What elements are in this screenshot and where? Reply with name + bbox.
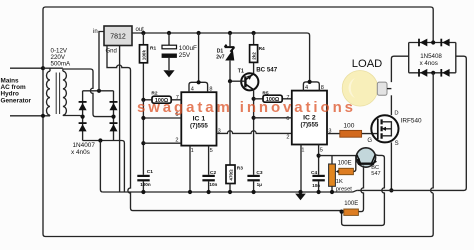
transformer TR1 core bbox=[56, 73, 59, 115]
wire pin5 node to BC547 collector bbox=[319, 156, 362, 164]
wire 7812 gnd pin to ground bus bbox=[119, 46, 121, 193]
diode D7 1N5408 top-right bbox=[441, 39, 449, 47]
svg-text:in: in bbox=[93, 29, 98, 35]
wire mains input bottom bbox=[10, 115, 50, 117]
wire T3 emitter loop down and around bbox=[342, 155, 385, 226]
wire R1 node down to C1 bbox=[142, 100, 144, 175]
wire T3 base down to lower 100E with bus hop bbox=[358, 166, 364, 212]
bridge rectifier BR1 right rail bbox=[113, 91, 115, 141]
node bus C2 bbox=[207, 190, 211, 194]
wire IC2 pin6 tie bbox=[254, 117, 292, 119]
svg-text:2: 2 bbox=[286, 135, 289, 141]
svg-text:25V: 25V bbox=[179, 52, 191, 59]
wire lamp top from output bridge left port bbox=[391, 56, 408, 82]
svg-text:R5: R5 bbox=[262, 91, 268, 97]
node bus C4 bbox=[317, 190, 321, 194]
wire BR2 right port down right edge to bus bbox=[357, 56, 466, 190]
wire secondary top to bridge AC2 with hop over dc wire bbox=[43, 68, 114, 116]
wire source down to bus bbox=[390, 142, 392, 190]
ground symbol below C5 bbox=[163, 70, 174, 77]
svg-text:x 4nos: x 4nos bbox=[420, 60, 438, 67]
resistor R1 100K bbox=[140, 33, 148, 100]
wire +12V rail from 7812 out bbox=[132, 33, 310, 82]
wire IC2 pin1 to bus bbox=[300, 145, 302, 193]
svg-text:T1: T1 bbox=[238, 68, 244, 74]
svg-text:C3: C3 bbox=[256, 170, 262, 176]
svg-text:(7)555: (7)555 bbox=[190, 123, 208, 130]
svg-text:1μ: 1μ bbox=[257, 182, 263, 187]
svg-text:R4: R4 bbox=[259, 46, 265, 52]
transistor T1 BC547 bbox=[241, 73, 258, 90]
svg-text:BC 547: BC 547 bbox=[256, 67, 278, 74]
node rail IC1 supply bbox=[197, 31, 201, 35]
capacitor C5 100uF 25V bbox=[162, 33, 177, 70]
text D1 2v7 bbox=[216, 48, 225, 60]
svg-text:5: 5 bbox=[320, 148, 323, 154]
node BR2 top center bbox=[431, 40, 435, 44]
svg-text:100E: 100E bbox=[344, 201, 358, 207]
wire left outer vertical bbox=[43, 7, 46, 234]
wire T1 emitter chain down to C3 bbox=[253, 90, 255, 175]
diode D5 1N4007 bottom-right bbox=[110, 123, 118, 131]
svg-text:100k: 100k bbox=[141, 50, 146, 61]
diode D8 1N5408 bottom-left bbox=[419, 69, 427, 77]
svg-text:10n: 10n bbox=[209, 182, 217, 187]
node rail C5 bbox=[167, 31, 171, 35]
diode D4 1N4007 top-right bbox=[110, 102, 118, 110]
svg-text:G: G bbox=[367, 138, 372, 144]
svg-text:D: D bbox=[394, 111, 398, 117]
transistor T3 BC547 output sense bbox=[356, 148, 377, 167]
diode D9 1N5408 bottom-right bbox=[441, 69, 449, 77]
svg-text:C1: C1 bbox=[147, 169, 153, 175]
wire BR1 minus to ground bus bbox=[100, 141, 103, 193]
text 1N5408 x 4nos bbox=[420, 53, 443, 67]
svg-text:8: 8 bbox=[321, 85, 324, 91]
svg-text:1K: 1K bbox=[336, 179, 343, 185]
svg-text:R1: R1 bbox=[150, 46, 156, 52]
resistor R8 100E lower bbox=[342, 209, 359, 215]
node BR1 ac left bbox=[81, 115, 85, 119]
node timing junction pin2 bbox=[141, 141, 145, 145]
resistor R3 470ohm bbox=[226, 165, 235, 192]
node rail R1 bbox=[141, 31, 145, 35]
svg-text:x 4n0s: x 4n0s bbox=[71, 149, 90, 156]
wire IC2 pin3 to gate resistor bbox=[327, 133, 378, 135]
wire 7812 gnd-side stub to sense line with hop and bus hop bbox=[107, 46, 342, 211]
svg-text:500mA: 500mA bbox=[51, 61, 71, 68]
node T1 base bbox=[228, 79, 232, 83]
svg-text:C2: C2 bbox=[210, 170, 216, 176]
wire IC1 pin3 to IC2 pin2 with two hops bbox=[217, 131, 292, 134]
node bus IC1 pin1 bbox=[188, 190, 192, 194]
text 1N4007 x 4n0s bbox=[71, 142, 95, 156]
wire IC2 pin5 chain to C4 bbox=[318, 145, 320, 175]
svg-text:4: 4 bbox=[191, 87, 194, 93]
resistor R7 100E upper bbox=[339, 156, 356, 175]
capacitor C4 10n bbox=[312, 175, 324, 192]
node BR1 ac right bbox=[111, 115, 115, 119]
svg-text:swagatam innovations: swagatam innovations bbox=[137, 99, 356, 116]
svg-text:100: 100 bbox=[343, 122, 354, 129]
resistor R2 100ohm bbox=[143, 96, 181, 104]
node rail R4 bbox=[252, 31, 256, 35]
node bus C3 bbox=[252, 190, 256, 194]
diode D6 1N5408 top-left bbox=[419, 39, 427, 47]
wire bridge bottom extension down to bus bbox=[114, 141, 125, 193]
wire BR1 plus to 7812 input bbox=[99, 32, 104, 91]
output bridge BR2 frame bbox=[409, 43, 456, 73]
svg-text:547: 547 bbox=[371, 171, 380, 177]
regulator U3 7812 bbox=[104, 26, 132, 46]
wire D1 base node down to R3 bbox=[229, 81, 231, 165]
wire BR1 bottom bbox=[83, 140, 114, 142]
capacitor C1 100n bbox=[137, 175, 149, 192]
node pin5 branch bbox=[317, 154, 321, 158]
diode D3 1N4007 bottom-left bbox=[79, 123, 87, 131]
node sense junction bbox=[340, 210, 344, 214]
wire IC1 pin2 to timing node bbox=[143, 142, 181, 144]
wire IC1 supply bridge pins 4 8 bbox=[189, 33, 208, 92]
wire T1 base from D1 bbox=[230, 80, 245, 82]
node bus IC2 pin1 ground bbox=[298, 190, 302, 194]
text IC1 pin labels bbox=[175, 87, 220, 155]
svg-text:R3: R3 bbox=[237, 165, 243, 171]
IC1 555 box bbox=[181, 92, 216, 145]
node R1 R2 junction bbox=[141, 98, 145, 102]
svg-text:IRF540: IRF540 bbox=[401, 118, 422, 125]
svg-text:(7)555: (7)555 bbox=[300, 121, 318, 128]
node pin6 timing bbox=[141, 116, 145, 120]
node bus C1 bbox=[141, 190, 145, 194]
svg-text:2k2: 2k2 bbox=[252, 52, 257, 60]
node BR2 bottom center bbox=[431, 71, 435, 75]
IC2 555 box bbox=[292, 91, 327, 145]
lamp LOAD bulb bbox=[342, 71, 391, 107]
svg-text:1: 1 bbox=[301, 148, 304, 154]
resistor R5 100ohm bbox=[254, 95, 292, 103]
wire secondary bottom to bridge AC1 bbox=[63, 116, 83, 117]
node emitter R5 bbox=[252, 97, 256, 101]
node mains top junction bbox=[41, 66, 45, 70]
node source bus bbox=[389, 188, 393, 192]
wire IC1 pin5 to C2 bbox=[208, 146, 210, 175]
preset P1 1K bbox=[329, 156, 340, 192]
svg-text:1: 1 bbox=[191, 148, 194, 154]
node mains bottom junction bbox=[41, 114, 45, 118]
wire IC1 pin6 to timing node bbox=[143, 117, 181, 119]
svg-text:LOAD: LOAD bbox=[352, 58, 382, 70]
transformer TR1 primary winding bbox=[47, 68, 51, 115]
wire IC2 supply bridge pins 4 8 bbox=[303, 82, 319, 91]
node rail D1 bbox=[228, 31, 232, 35]
capacitor C3 1u bbox=[247, 175, 259, 192]
mosfet Q1 IRF540 bbox=[371, 115, 398, 142]
wire BR1 top bbox=[83, 90, 114, 92]
svg-text:IC 1: IC 1 bbox=[193, 116, 206, 123]
svg-text:100uF: 100uF bbox=[179, 45, 197, 52]
resistor R4 2k2 bbox=[250, 33, 258, 74]
svg-text:Generator: Generator bbox=[1, 97, 32, 104]
node IC2 supply bbox=[308, 80, 312, 84]
wire ground bus bbox=[103, 190, 357, 192]
svg-text:100E: 100E bbox=[338, 161, 352, 167]
node BR1 plus bbox=[97, 89, 101, 93]
svg-text:5: 5 bbox=[210, 148, 213, 154]
capacitor C2 10n bbox=[202, 175, 214, 192]
text 0-12V 220V 500mA bbox=[51, 48, 71, 68]
text IC2 pin labels bbox=[286, 85, 331, 153]
wire bottom outer bbox=[43, 193, 433, 236]
transformer TR1 secondary winding bbox=[63, 69, 67, 116]
svg-text:C4: C4 bbox=[311, 170, 317, 176]
svg-text:S: S bbox=[395, 141, 399, 147]
text 100uF 25V bbox=[179, 45, 197, 59]
svg-text:7812: 7812 bbox=[110, 33, 126, 40]
svg-text:4: 4 bbox=[305, 85, 308, 91]
text 1K preset bbox=[336, 179, 353, 192]
wire IC1 pin1 to bus bbox=[189, 146, 191, 192]
svg-text:R2: R2 bbox=[151, 91, 157, 97]
ground symbol center bbox=[295, 194, 306, 201]
wire BR2 bottom center down to outer bottom with bus hop bbox=[431, 73, 434, 193]
diode D2 1N4007 top-left bbox=[79, 102, 87, 110]
node BR1 minus bbox=[98, 138, 102, 142]
zener diode D1 2v7 bbox=[225, 33, 235, 81]
node bus R3 bbox=[228, 190, 232, 194]
wire top rail bbox=[46, 7, 434, 43]
wire mains input top bbox=[10, 67, 43, 69]
wire drain up to lamp bbox=[390, 95, 392, 115]
node pin6 tie bbox=[252, 116, 256, 120]
svg-text:2v7: 2v7 bbox=[216, 54, 225, 60]
text Mains AC from Hydro Generator bbox=[1, 77, 32, 104]
text BC 547 second bbox=[371, 165, 380, 177]
svg-text:10n: 10n bbox=[312, 183, 320, 188]
svg-text:6: 6 bbox=[286, 116, 289, 122]
node IC1 supply bbox=[197, 80, 201, 84]
resistor R6 100 gate bbox=[340, 130, 362, 137]
svg-text:8: 8 bbox=[209, 87, 212, 93]
svg-text:100n: 100n bbox=[140, 182, 151, 187]
bridge rectifier BR1 left rail bbox=[82, 91, 84, 141]
node bus preset bbox=[330, 190, 334, 194]
svg-text:470Ω: 470Ω bbox=[228, 169, 233, 181]
